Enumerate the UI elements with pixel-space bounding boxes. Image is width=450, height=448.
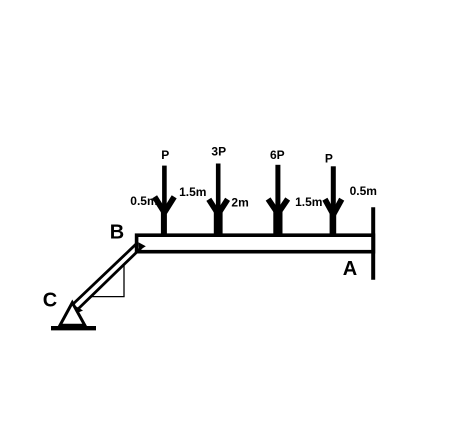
- svg-text:2m: 2m: [231, 195, 248, 209]
- svg-text:A: A: [343, 258, 357, 280]
- svg-text:6P: 6P: [270, 148, 285, 162]
- svg-text:P: P: [161, 148, 169, 162]
- svg-text:B: B: [110, 221, 124, 243]
- svg-text:C: C: [43, 290, 57, 312]
- svg-text:1.5m: 1.5m: [179, 185, 206, 199]
- svg-text:0.5m: 0.5m: [130, 194, 157, 208]
- svg-text:0.5m: 0.5m: [350, 184, 377, 198]
- svg-text:P: P: [325, 152, 333, 166]
- svg-text:1.5m: 1.5m: [295, 195, 322, 209]
- svg-text:3P: 3P: [211, 145, 226, 159]
